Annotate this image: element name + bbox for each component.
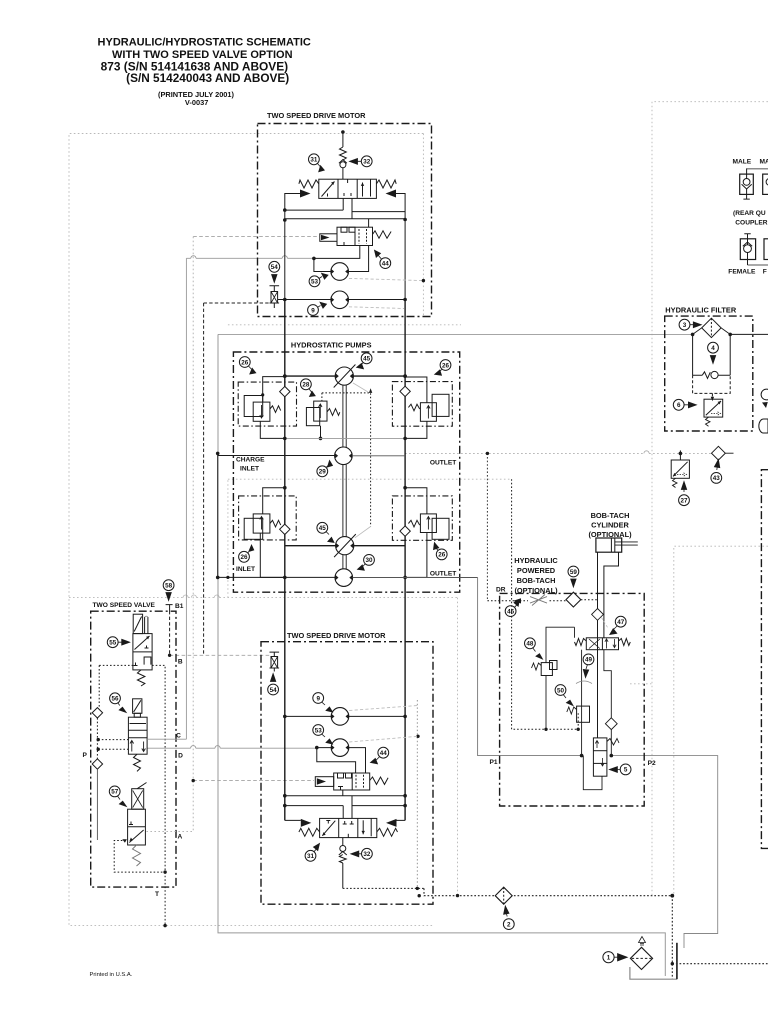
two speed drive motor (bottom) enclosure <box>261 642 433 905</box>
wire dashed filter drain <box>693 375 731 393</box>
svg-text:27: 27 <box>680 498 688 505</box>
svg-text:MALE: MALE <box>733 159 752 166</box>
balloon 48 <box>525 638 543 659</box>
spring of check 32 <box>340 147 347 160</box>
balloon 2 <box>503 906 514 929</box>
wire dotted DR line <box>487 600 597 601</box>
wire circle53 right leg <box>349 246 369 272</box>
junction dot B <box>168 654 171 657</box>
svg-text:26: 26 <box>442 362 450 369</box>
relief valve TL body <box>244 396 263 417</box>
wire pump2 bus <box>285 545 405 547</box>
leader gray pump2 to servo <box>355 527 371 538</box>
svg-text:9: 9 <box>311 307 315 314</box>
wire frame left <box>285 194 300 300</box>
bob-tach enclosure <box>500 593 645 806</box>
balloon 46 <box>505 600 519 617</box>
motor circle 53 <box>331 263 349 281</box>
wire gray solid charge supply to filter y334 <box>218 333 693 335</box>
valve 27 stem <box>679 450 681 460</box>
charge pump circle 29 <box>335 447 353 465</box>
wire gray relief drain bus y438 <box>285 437 405 439</box>
svg-text:INLET: INLET <box>236 566 255 573</box>
balloon 26 bottom-right <box>434 543 448 560</box>
balloon 56 <box>110 693 127 713</box>
spring BL <box>270 520 281 527</box>
wire relief BL drain <box>260 533 285 577</box>
svg-text:A: A <box>178 834 183 841</box>
check valve diamond left lower <box>280 524 290 534</box>
wire bus3 y299 <box>285 299 405 301</box>
valve 6 unloader <box>704 399 723 417</box>
valve 55 spring <box>137 670 145 686</box>
svg-text:5: 5 <box>624 767 628 774</box>
balloon 32 <box>350 156 373 167</box>
node B1 port <box>166 605 173 611</box>
wire bus9 bottom <box>285 715 405 717</box>
svg-text:53: 53 <box>311 279 319 286</box>
svg-text:44: 44 <box>382 260 390 267</box>
valve 47 springs <box>575 639 587 646</box>
svg-text:P2: P2 <box>648 760 656 767</box>
svg-text:54: 54 <box>270 687 278 694</box>
valve31 right cell arrows <box>362 183 364 197</box>
wire dotted vert drain x417 <box>416 700 418 888</box>
spring right valve44 <box>373 231 392 238</box>
wire dotted P riser 2 <box>96 718 98 759</box>
check diamond valve5 <box>605 718 617 730</box>
balloon 50 <box>555 685 573 706</box>
svg-text:(REAR QU: (REAR QU <box>733 210 766 217</box>
check diamond P lower <box>92 759 102 769</box>
pilot arrow right valve31 <box>386 190 397 198</box>
svg-text:FEMALE: FEMALE <box>728 269 756 276</box>
wire dotted under valve55 <box>99 665 165 872</box>
wire valve31 to check32 bottom <box>342 838 344 846</box>
bypass check spring <box>702 372 710 379</box>
wire dotted servo control <box>322 393 371 527</box>
relief valve BL body <box>244 518 263 539</box>
svg-text:45: 45 <box>319 525 327 532</box>
balloon 31 <box>309 154 325 172</box>
spring right of valve31 bottom <box>377 828 398 836</box>
wire gray dotted vert inside top motor <box>422 134 424 317</box>
svg-text:TWO SPEED DRIVE MOTOR: TWO SPEED DRIVE MOTOR <box>287 631 386 640</box>
wire frame right <box>396 194 405 300</box>
wire gray C from valve56 <box>147 738 186 740</box>
wire relief BR drain <box>405 533 427 577</box>
svg-text:26: 26 <box>438 552 446 559</box>
wire gray dotted vert x457 <box>457 598 459 896</box>
reservoir tank <box>630 967 677 979</box>
svg-text:POWERED: POWERED <box>517 566 556 575</box>
check valve diamond right upper <box>400 386 410 396</box>
wire charge inlet line <box>218 453 335 577</box>
wire gray dashed leaders bottom <box>349 706 417 711</box>
text bob-tach cylinder <box>588 511 632 539</box>
two speed valve enclosure <box>91 611 176 887</box>
check valve 32 bottom <box>340 846 346 852</box>
wire black dotted T drop x165 <box>164 872 166 926</box>
wire gray solid net C x186 <box>185 258 187 739</box>
wire cylinder port B <box>604 552 619 638</box>
wire relief TR branch <box>405 377 427 403</box>
svg-text:F: F <box>763 269 767 276</box>
valve 56 pilot <box>133 699 142 714</box>
svg-text:28: 28 <box>302 382 310 389</box>
valve 55 pin <box>145 617 148 634</box>
motor circle 9 bottom <box>331 708 349 726</box>
spring right valve44 bottom <box>370 777 388 784</box>
text charge inlet <box>236 457 456 578</box>
valve 57 body <box>128 809 146 845</box>
wire dashed B1 into box <box>169 611 171 655</box>
balloon 26 top-right <box>435 360 451 376</box>
valve44 piston <box>320 234 337 242</box>
wire gray dotted right-top boundary <box>652 102 768 896</box>
wire relief BR branch <box>405 488 427 514</box>
balloon 44 <box>375 250 391 268</box>
balloon 45 lower <box>317 522 334 542</box>
balloon 26 top-left <box>239 357 255 374</box>
svg-text:53: 53 <box>315 727 323 734</box>
valve 57 spring <box>133 845 141 866</box>
wire filter outlet right <box>730 333 768 335</box>
svg-text:31: 31 <box>307 853 315 860</box>
valve 5 spring <box>607 739 619 746</box>
svg-text:9: 9 <box>316 695 320 702</box>
wire check32 drain <box>342 863 344 888</box>
shaft pump2 to gear30 <box>343 555 346 569</box>
balloon 30 <box>358 555 375 571</box>
svg-text:59: 59 <box>570 569 578 576</box>
balloon 9 bottom <box>313 693 333 712</box>
svg-text:26: 26 <box>241 359 249 366</box>
wire main left loop line <box>284 300 286 821</box>
wire gray solid tank return left <box>218 334 665 976</box>
balloon 6 <box>673 399 696 410</box>
filter diamond <box>702 318 721 337</box>
wire dotted drain to tank header <box>343 887 424 889</box>
wire circle53 left leg bottom <box>317 748 356 773</box>
wire dashed black net B riser x203 <box>203 303 205 655</box>
wire male top link <box>747 168 768 170</box>
wire gray drain to x652 <box>630 683 651 685</box>
svg-text:45: 45 <box>363 356 371 363</box>
motor circle 53 bottom <box>331 739 349 757</box>
wire dashed black net B to top shuttle54 <box>204 302 270 304</box>
wire gray dotted right mid boundary <box>674 546 768 896</box>
wire relief TL drain <box>260 421 285 438</box>
bypass check circle <box>711 371 718 378</box>
wire dotted P taps to valve56 <box>98 740 128 750</box>
spring BR <box>408 520 419 527</box>
wire gray dashed net A to bottom valve44 <box>193 780 314 782</box>
wire valve47 to valve50 <box>581 650 583 756</box>
spring check32 bottom <box>339 855 346 864</box>
balloon 26 bottom-left <box>239 545 254 562</box>
svg-text:(S/N 514240043 AND ABOVE): (S/N 514240043 AND ABOVE) <box>126 71 289 85</box>
wire gray dotted charge drain y453 <box>405 452 711 454</box>
wire pump1 bus <box>285 375 405 377</box>
shuttle 54 component top <box>270 286 280 292</box>
valve 27 towing <box>671 460 689 478</box>
svg-text:6: 6 <box>677 402 681 409</box>
svg-text:29: 29 <box>319 469 327 476</box>
svg-text:43: 43 <box>713 475 721 482</box>
motor circle 9 <box>331 291 349 309</box>
hydrostatic pumps enclosure <box>233 352 459 592</box>
svg-text:2: 2 <box>507 921 511 928</box>
balloon 4 <box>708 342 719 363</box>
svg-text:C: C <box>176 733 181 740</box>
balloon 9 <box>308 302 327 315</box>
svg-text:55: 55 <box>109 640 117 647</box>
leader gray pump1 to servo <box>353 383 368 392</box>
balloon 55 <box>107 637 129 648</box>
svg-text:54: 54 <box>271 264 279 271</box>
wire 54 to bus3 <box>278 299 285 301</box>
text male labels <box>728 159 768 276</box>
hydraulic filter enclosure <box>665 316 753 431</box>
svg-text:DR: DR <box>496 587 506 594</box>
balloon 49 <box>583 654 594 678</box>
valve 31 directional body bottom <box>320 818 377 837</box>
valve31 right cell arrows bottom <box>362 820 364 834</box>
check diamond 43 <box>712 446 726 460</box>
wire gray dashed drains to x423 <box>349 278 424 280</box>
svg-text:HYDRAULIC: HYDRAULIC <box>514 556 558 565</box>
spring left of valve31 <box>299 180 319 188</box>
svg-text:P: P <box>83 752 88 759</box>
valve 55 solenoid pilot <box>133 614 142 633</box>
check valve diamond right lower <box>400 526 410 536</box>
svg-text:56: 56 <box>111 696 119 703</box>
junction dot tank right <box>670 894 674 898</box>
check valve diamond left upper <box>280 386 290 396</box>
leader gray check <box>602 618 609 630</box>
breather above <box>639 937 646 943</box>
wire dotted black DR riser x487 <box>486 453 488 600</box>
relief 26 bottom-left subbox <box>239 496 297 540</box>
valve 50 sequence <box>577 706 590 722</box>
valve 28 charge relief <box>306 408 319 426</box>
pump 45 upper <box>335 367 353 385</box>
svg-text:4: 4 <box>711 345 715 352</box>
svg-text:HYDRAULIC FILTER: HYDRAULIC FILTER <box>665 306 737 315</box>
balloon 29 <box>317 461 333 477</box>
svg-text:TWO SPEED VALVE: TWO SPEED VALVE <box>93 602 156 609</box>
junction dot A <box>192 779 195 782</box>
svg-text:D: D <box>178 753 183 760</box>
wire stubs to valve31 bottom <box>343 796 352 819</box>
balloon 27 <box>679 482 690 506</box>
balloon partial right edge <box>759 389 768 433</box>
text hydraulic powered bob-tach <box>514 556 558 595</box>
relief valve TR body <box>432 394 449 416</box>
wire circle53 right leg bottom <box>349 748 366 773</box>
valve 57 pilot <box>132 789 144 810</box>
balloon 53 <box>309 273 328 286</box>
wire main right loop line <box>404 300 406 821</box>
strainer diamond 59 <box>566 592 581 607</box>
wire gray dotted y479 to bobtach <box>228 478 512 480</box>
wire bus2 bottom <box>285 805 405 807</box>
balloon 44 bottom <box>371 747 389 764</box>
orifice 46 <box>530 595 547 606</box>
svg-text:OUTLET: OUTLET <box>430 460 456 467</box>
valve 44 shuttle body bottom <box>334 773 370 790</box>
balloon 47 <box>610 616 626 634</box>
wire bus2 to valve44 <box>368 219 370 227</box>
valve31 centre cell marks <box>347 179 349 183</box>
svg-text:MA: MA <box>760 159 768 166</box>
wire gray solid P2 to tank <box>611 756 717 948</box>
wire bus2 <box>285 218 405 220</box>
wire gray dotted pump lower boundary <box>227 480 229 597</box>
valve 48 reducing <box>541 663 552 676</box>
filter loop wires <box>693 334 731 375</box>
valve44 piston bottom <box>315 777 333 787</box>
wire female bottom link <box>748 264 768 266</box>
valve 5 stack <box>593 738 607 776</box>
bob-tach cylinder body <box>596 538 622 552</box>
svg-text:31: 31 <box>310 157 318 164</box>
svg-text:B: B <box>178 659 183 666</box>
relief 26 top-right subbox <box>392 382 452 427</box>
wire dotted valve57 drain box <box>114 841 165 873</box>
balloon 57 <box>109 786 126 807</box>
svg-text:30: 30 <box>365 557 373 564</box>
svg-text:1: 1 <box>607 955 611 962</box>
pilot arrow left valve31 <box>300 190 311 198</box>
svg-text:BOB-TACH: BOB-TACH <box>591 511 630 520</box>
female coupler 2 partial <box>764 239 768 260</box>
svg-text:OUTLET: OUTLET <box>430 571 456 578</box>
svg-text:48: 48 <box>526 641 534 648</box>
spring TR <box>408 404 419 411</box>
wire cylinder port A <box>597 552 599 738</box>
male coupler 2 partial <box>763 174 768 194</box>
check diamond P upper <box>92 708 102 718</box>
valve31 left cell diagonal <box>322 182 335 197</box>
valve 27 spring <box>673 478 678 487</box>
female coupler 1 <box>740 239 755 260</box>
wire relief BL branch <box>263 488 285 514</box>
balloon 54 bottom with up arrow <box>268 674 279 695</box>
svg-text:49: 49 <box>585 657 593 664</box>
valve 55 lower cell blocked port <box>144 657 151 665</box>
balloon 3 <box>679 319 701 330</box>
svg-text:46: 46 <box>507 608 515 615</box>
reservoir strainer diamond 1 <box>630 947 652 969</box>
gear pump circle 30 <box>335 569 353 587</box>
valve 56 spring <box>134 754 141 771</box>
spring left of valve31 bottom <box>299 828 320 836</box>
junction dot 487/453 <box>486 452 489 455</box>
wire bus1 bottom <box>285 795 405 797</box>
balloon 1 <box>603 952 627 963</box>
svg-text:P1: P1 <box>490 759 498 766</box>
svg-text:COUPLER: COUPLER <box>735 220 767 227</box>
wire gray dashed net B to bottom shuttle54 <box>170 654 270 656</box>
spring TL <box>270 406 281 413</box>
wire right page dashdot box <box>761 470 768 849</box>
wire gray dotted below top motor <box>228 324 461 326</box>
strainer diamond 2 <box>495 887 512 904</box>
title block <box>98 37 311 107</box>
valve31 left cell diagonal bottom <box>322 821 335 836</box>
wire gray solid net D y748 <box>147 747 317 749</box>
svg-text:B1: B1 <box>175 603 184 610</box>
valve 47 body <box>586 638 618 650</box>
valve31 centre cell marks bottom <box>347 834 349 838</box>
relief valve BR body <box>432 518 449 539</box>
svg-text:CHARGE: CHARGE <box>236 457 265 464</box>
wire valve47 pilot left <box>546 627 575 662</box>
wire gray dotted boundary rect outer left <box>69 134 433 926</box>
svg-text:Printed in U.S.A.: Printed in U.S.A. <box>90 972 133 978</box>
svg-text:V-0037: V-0037 <box>185 98 208 107</box>
male coupler 1 <box>740 174 754 194</box>
wire valve48 drain <box>545 676 547 730</box>
svg-text:TWO SPEED DRIVE MOTOR: TWO SPEED DRIVE MOTOR <box>267 111 366 120</box>
jump arc 49 <box>576 681 592 684</box>
valve 31 directional body <box>319 179 377 198</box>
wire check to valve31 <box>342 168 344 179</box>
wire solid P lower tail <box>96 769 98 840</box>
wire gray solid P1 drop x477 <box>478 578 582 756</box>
svg-text:T: T <box>155 891 159 898</box>
svg-text:44: 44 <box>380 750 388 757</box>
wire valve44 to junction <box>314 246 360 272</box>
svg-text:BOB-TACH: BOB-TACH <box>517 576 556 585</box>
pump shaft upper <box>343 385 346 447</box>
pilot arrow right valve31 bottom <box>386 819 397 827</box>
wire valve31 to bus <box>342 198 344 210</box>
wire dotted bobtach drain box <box>512 479 579 729</box>
pump 45 lower <box>336 537 354 555</box>
wire gear30 left <box>218 576 335 578</box>
balloon 53 bottom <box>313 725 333 744</box>
wire gray dashed net A to top valve44 <box>193 236 318 238</box>
balloon 43 <box>711 459 722 483</box>
wire port B to check5 <box>604 650 611 756</box>
balloon 58 <box>163 580 174 601</box>
pump shaft lower <box>343 465 346 537</box>
valve 56 bottom cell arrows <box>130 741 134 752</box>
wire valve44 to bus bottom <box>342 790 344 796</box>
balloon 45 upper <box>357 353 372 369</box>
balloon 28 <box>301 379 316 397</box>
two speed drive motor (top) enclosure <box>258 124 432 317</box>
wire valve5 bottom loop <box>583 756 602 790</box>
svg-text:3: 3 <box>683 322 687 329</box>
wire dotted P riser <box>98 665 100 707</box>
svg-text:57: 57 <box>111 789 119 796</box>
valve 56 body <box>128 717 147 754</box>
balloon 5 <box>609 764 631 775</box>
wire frame bottom <box>285 819 405 821</box>
wire valve28 drain <box>320 426 322 439</box>
wire charge to right <box>352 455 405 457</box>
relief 26 top-left subbox <box>238 382 296 426</box>
shuttle 54 component bottom <box>270 652 280 656</box>
pilot arrow left valve31 bottom <box>301 819 312 827</box>
svg-text:CYLINDER: CYLINDER <box>591 521 629 530</box>
valve 44 shuttle body <box>337 227 373 245</box>
balloon 31 bottom <box>305 844 319 862</box>
